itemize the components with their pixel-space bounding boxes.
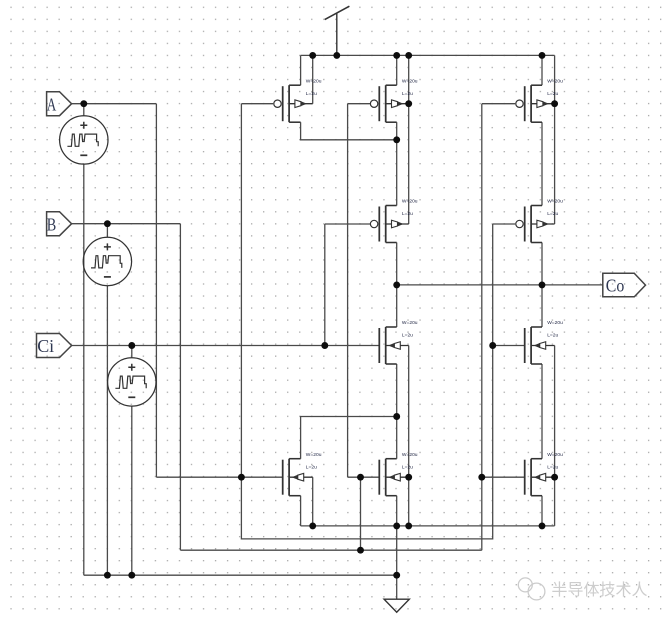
pulse voltage source V1 (net A) [60,116,108,164]
transistor M9 (NMOS, gate B) [379,459,408,496]
wire source top lead [83,104,85,116]
wire source bottom lead [106,286,108,576]
transistor M2 (PMOS, gate B) [370,85,408,122]
wire M5 gate lead [493,223,516,225]
svg-text:W=20u: W=20u [402,452,418,458]
wire M5 drain to output node [541,243,543,285]
wire M4 gate net vertical [324,224,326,346]
svg-text:L=2u: L=2u [306,91,317,97]
junction bottom rail / V3 minus [128,572,135,579]
svg-text:L=2u: L=2u [402,464,413,470]
wire net B from port [72,223,181,225]
junction source bus / M9 source [393,522,400,529]
wire M3 gate lead [482,103,515,105]
wire net Ci from port [72,345,380,347]
svg-text:L=2u: L=2u [547,91,558,97]
svg-text:W=20u: W=20u [402,320,418,326]
transistor M6 (NMOS, gate Ci) [379,327,408,364]
wire M4 gate lead [325,223,370,225]
junction VDD rail / M3 source [539,52,546,59]
wire M2-M9 gate net horizontal [348,476,380,478]
svg-text:L=2u: L=2u [402,91,413,97]
svg-text:L=2u: L=2u [306,464,317,470]
junction middle bulk column / M2 bulk [405,100,412,107]
svg-text:W=20u: W=20u [547,199,563,205]
wire M6 drain to output node [396,285,398,327]
port B [47,212,72,236]
wire right PMOS bulk column [554,55,556,224]
transistor M1 (PMOS, gate A) [274,85,313,122]
junction node N2 [393,413,400,420]
port Co [603,273,646,297]
junction net Ci / V3 plus [128,342,135,349]
transistor M10 (NMOS, gate B) [525,459,555,496]
wire M1 gate lead [241,103,273,105]
svg-text:W=20u: W=20u [306,78,322,84]
junction VDD rail / VDD stem [333,52,340,59]
wire M2-M9 gate net vertical [347,104,349,478]
junction output node right [539,281,546,288]
wire M9 gate net drop [360,477,362,550]
svg-text:Ci: Ci [37,336,54,356]
wire M4 drain to output node [396,243,398,285]
wire net B bottom run [180,549,481,551]
junction net Ci / M4 gate net [321,342,328,349]
wire middle NMOS bulk column [408,346,410,526]
wire output node to Co port [397,284,603,286]
wire source top lead [131,346,133,358]
transistor M5 (PMOS, gate A) [516,206,555,243]
wire M7 source to M10 drain [541,364,543,459]
junction net B / V2 plus [104,220,111,227]
wire M3 source to rail [541,55,543,85]
svg-text:L=2u: L=2u [402,211,413,217]
transistor M3 (PMOS, gate B) [516,85,555,122]
wire M8 bulk down [312,477,314,526]
watermark logo [518,578,545,600]
wire VDD rail [301,54,555,56]
junction source bus / M10 source [539,522,546,529]
transistor M4 (PMOS, gate Ci) [370,206,408,243]
svg-text:L=2u: L=2u [402,333,413,339]
pulse voltage source V2 (net B) [83,237,131,285]
wire M7 gate lead [493,345,525,347]
svg-text:W=20u: W=20u [306,452,322,458]
wire M9 source down [396,496,398,526]
wire M1 drain to node N1 [301,122,397,140]
wire ground column [396,526,398,599]
wire net B vertical [179,224,181,551]
ground symbol [384,599,409,612]
svg-text:W=20u: W=20u [402,199,418,205]
wire M10 source down [541,496,543,526]
wire net A from port [72,103,157,105]
junction VDD rail / middle bulk column [405,52,412,59]
junction ground column / bottom rail [393,572,400,579]
wire M1 source to rail [300,55,302,85]
transistor M8 (NMOS, gate A) [283,459,313,496]
wire net A extension to M5/M7 gates [241,224,492,539]
wire net B riser to M3/M10 gates [481,104,483,551]
wire M2 drain to M4 source [396,122,398,205]
junction M9 gate net [357,474,364,481]
wire M8 drain link [301,417,397,459]
transistor M7 (NMOS, gate A) [525,327,555,364]
svg-text:W=20u: W=20u [402,78,418,84]
wire source bottom lead [83,164,85,575]
junction net A / M7 gate [489,342,496,349]
junction source bus / M8 bulk [309,522,316,529]
wire M10 gate lead [482,476,525,478]
wire M1 bulk to rail [312,55,314,103]
wire right NMOS bulk column [554,346,556,526]
junction middle bulk column / M9 bulk [405,474,412,481]
port Ci [37,334,72,358]
wire NMOS source/bulk bus [301,525,555,527]
svg-text:W=20u: W=20u [547,320,563,326]
svg-text:A: A [47,94,57,114]
wire M2 gate lead [348,103,370,105]
junction net B / M10 gate [478,474,485,481]
wire M1 gate net vertical [240,104,242,478]
wire M8 source down [300,496,302,526]
VDD power symbol [325,6,350,55]
svg-text:Co: Co [606,276,625,296]
junction source bus / M9 bulk [405,522,412,529]
junction bottom rail / V2 minus [104,572,111,579]
svg-text:L=2u: L=2u [547,464,558,470]
wire middle PMOS bulk column [408,55,410,224]
wire M2 source to rail [396,55,398,85]
junction right bulk column / M10 bulk [551,474,558,481]
junction output node left [393,281,400,288]
svg-text:W=20u: W=20u [547,78,563,84]
junction VDD rail / M1 bulk [309,52,316,59]
wire source bottom lead [131,406,133,575]
junction VDD rail / M2 source [393,52,400,59]
svg-text:W=20u: W=20u [547,452,563,458]
wire M3 drain to M5 source [541,122,543,205]
junction right bulk column / M3 bulk [551,100,558,107]
junction net B / M2-M9 gate net [357,547,364,554]
wire bottom return rail [84,574,397,576]
wire M7 drain to output node [541,285,543,327]
svg-text:半导体技术人: 半导体技术人 [552,581,648,599]
wire net A to M8 gate [156,476,282,478]
port A [47,92,72,116]
svg-text:L=2u: L=2u [547,333,558,339]
svg-text:B: B [47,214,57,234]
wire net A vertical [155,104,157,478]
junction node N1 [393,136,400,143]
svg-text:L=2u: L=2u [547,211,558,217]
wire source top lead [106,224,108,238]
junction net A / M1 gate net [238,474,245,481]
pulse voltage source V3 (net Ci) [108,358,156,406]
wire M9 drain up [396,417,398,459]
wire M6 source down [396,364,398,417]
junction net A / V1 plus [80,100,87,107]
